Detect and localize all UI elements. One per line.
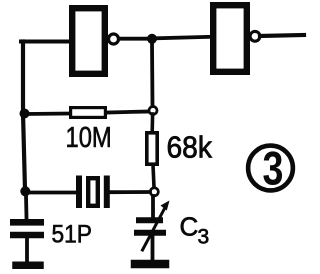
crystal Y1 left plate: [76, 179, 82, 206]
node junction dot A (rail / 10M row): [20, 109, 30, 119]
capacitor C1 51P bottom plate: [13, 232, 40, 239]
node B open circle (top of 68k): [149, 107, 157, 115]
resistor R1 10M body: [71, 108, 106, 118]
wire crystal row right segment: [110, 190, 150, 194]
capacitor C3 bottom plate: [137, 230, 163, 236]
wire output of U2 to right edge: [260, 35, 304, 36]
wire node B to 68k body: [150, 114, 154, 132]
svg-text:51P: 51P: [52, 221, 92, 249]
inverter U2 output bubble: [250, 31, 260, 41]
svg-text:3: 3: [263, 143, 284, 196]
wire crystal row left segment: [26, 191, 75, 195]
node junction dot C (between gates): [147, 34, 157, 44]
svg-text:3: 3: [198, 226, 210, 249]
svg-text:C: C: [180, 212, 199, 242]
figure number circle 3: [248, 146, 293, 191]
node D open circle (bottom of 68k): [150, 188, 158, 196]
wire input row to inverter U1: [21, 40, 68, 44]
wire rail down to capacitor 51P: [24, 195, 28, 218]
wire C3 bottom plate to ground: [151, 236, 155, 259]
capacitor C3 trimmer arrow head: [161, 201, 170, 211]
wire 10M row left segment: [25, 112, 69, 116]
capacitor C3 trimmer arrow shaft: [143, 209, 165, 251]
wire bubble U1 to junction C: [119, 37, 148, 41]
inverter U1 box: [72, 8, 105, 74]
wire left vertical rail: [23, 42, 25, 194]
node junction dot E (rail / crystal row): [20, 186, 30, 196]
wire 10M row right segment: [107, 112, 149, 113]
wire node D down to capacitor C3: [151, 196, 155, 217]
crystal Y1 body: [88, 178, 98, 206]
inverter U2 box: [213, 5, 247, 72]
crystal Y1 right plate: [104, 179, 110, 206]
wire 51P bottom plate to ground: [25, 238, 29, 261]
capacitor C1 51P top plate: [13, 219, 40, 226]
capacitor C3 top plate: [139, 217, 160, 223]
inverter U1 output bubble: [109, 34, 119, 44]
wire vertical from junction C down to node B: [150, 43, 154, 106]
resistor R2 68k body: [147, 133, 157, 164]
svg-text:68k: 68k: [167, 130, 213, 165]
ground G2 bar: [135, 260, 165, 269]
svg-text:10M: 10M: [66, 121, 112, 154]
wire 68k body to node D: [153, 165, 154, 187]
wire junction C to inverter U2 input: [156, 37, 211, 39]
ground G1 bar: [16, 262, 40, 270]
